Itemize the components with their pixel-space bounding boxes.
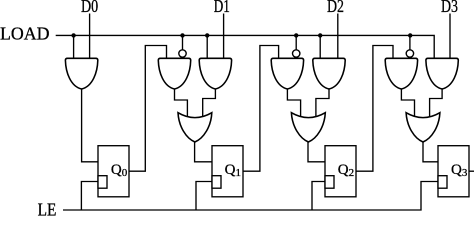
and-gate U5 xyxy=(271,58,303,89)
latch Q2 enable notch xyxy=(325,176,334,189)
latch Q0 enable notch xyxy=(98,176,107,189)
wire LOAD to U1 input xyxy=(73,35,75,58)
wire LOAD to U3 input xyxy=(206,35,208,58)
or-gate U4 xyxy=(178,113,212,142)
junction dot LOAD/U2 bubble xyxy=(180,33,184,37)
and-gate U6 xyxy=(313,58,345,89)
wire U4 out to Q1 D input xyxy=(195,141,212,162)
wire U2 out to OR U4 xyxy=(175,87,188,119)
wire LOAD to U8 bubble xyxy=(409,35,411,50)
svg-text:D1: D1 xyxy=(214,0,230,16)
wire D1 drop xyxy=(223,14,225,59)
wire Q2 feedback to U8 xyxy=(356,46,393,172)
svg-text:LOAD: LOAD xyxy=(0,24,50,44)
and-gate U9 xyxy=(426,58,458,89)
wire U8 out to OR U10 xyxy=(401,87,414,119)
wire U7 out to Q2 D input xyxy=(308,141,325,162)
and-gate U8 xyxy=(385,58,417,89)
wire LOAD bus xyxy=(56,35,435,58)
and-gate U3 xyxy=(199,58,231,89)
latch Q1 box xyxy=(212,146,243,197)
latch Q3 enable notch xyxy=(438,176,447,189)
and-gate U2 xyxy=(158,58,190,89)
inverter bubble on U5 xyxy=(293,50,300,57)
junction dot LOAD/U3 xyxy=(205,33,209,37)
svg-text:D3: D3 xyxy=(441,0,458,16)
wire U5 out to OR U7 xyxy=(287,87,300,119)
wire U6 out to OR U7 xyxy=(316,87,329,119)
or-gate U10 xyxy=(406,113,440,142)
wire U3 out to OR U4 xyxy=(203,87,216,119)
wire LE to Q1 enable xyxy=(196,182,212,211)
wire LOAD to U6 input xyxy=(319,35,321,58)
inverter bubble on U2 xyxy=(179,50,186,57)
wire D3 drop xyxy=(449,14,451,59)
junction dot LOAD/U5 bubble xyxy=(294,33,298,37)
wire D0 drop xyxy=(89,14,91,59)
junction dot LOAD/U6 xyxy=(318,33,322,37)
wire LE to Q0 enable xyxy=(81,182,98,211)
latch Q3 box xyxy=(438,146,469,197)
svg-text:LE: LE xyxy=(38,199,57,217)
wire Q0 feedback to U2 xyxy=(129,46,167,172)
wire U10 out to Q3 D input xyxy=(423,141,438,162)
svg-text:D2: D2 xyxy=(327,0,344,16)
junction dot LOAD/U8 bubble xyxy=(408,33,412,37)
inverter bubble on U8 xyxy=(406,50,413,57)
wire Q3 output stub xyxy=(469,170,474,172)
or-gate U7 xyxy=(291,113,325,142)
junction dot LOAD/U1 xyxy=(71,33,75,37)
svg-text:D0: D0 xyxy=(81,0,98,16)
wire Q1 feedback to U5 xyxy=(243,46,279,172)
wire LOAD to U2 bubble xyxy=(182,35,184,50)
latch Q0 box xyxy=(98,146,129,197)
wire LE to Q2 enable xyxy=(312,182,325,211)
latch Q2 box xyxy=(325,146,356,197)
wire U1 out to Q0 D input xyxy=(82,88,98,162)
wire LE bus xyxy=(63,182,438,211)
latch Q1 enable notch xyxy=(212,176,221,189)
wire D2 drop xyxy=(337,14,339,59)
wire U9 out to OR U10 xyxy=(430,87,443,119)
wire LOAD to U5 bubble xyxy=(295,35,297,50)
and-gate U1 xyxy=(65,58,97,89)
